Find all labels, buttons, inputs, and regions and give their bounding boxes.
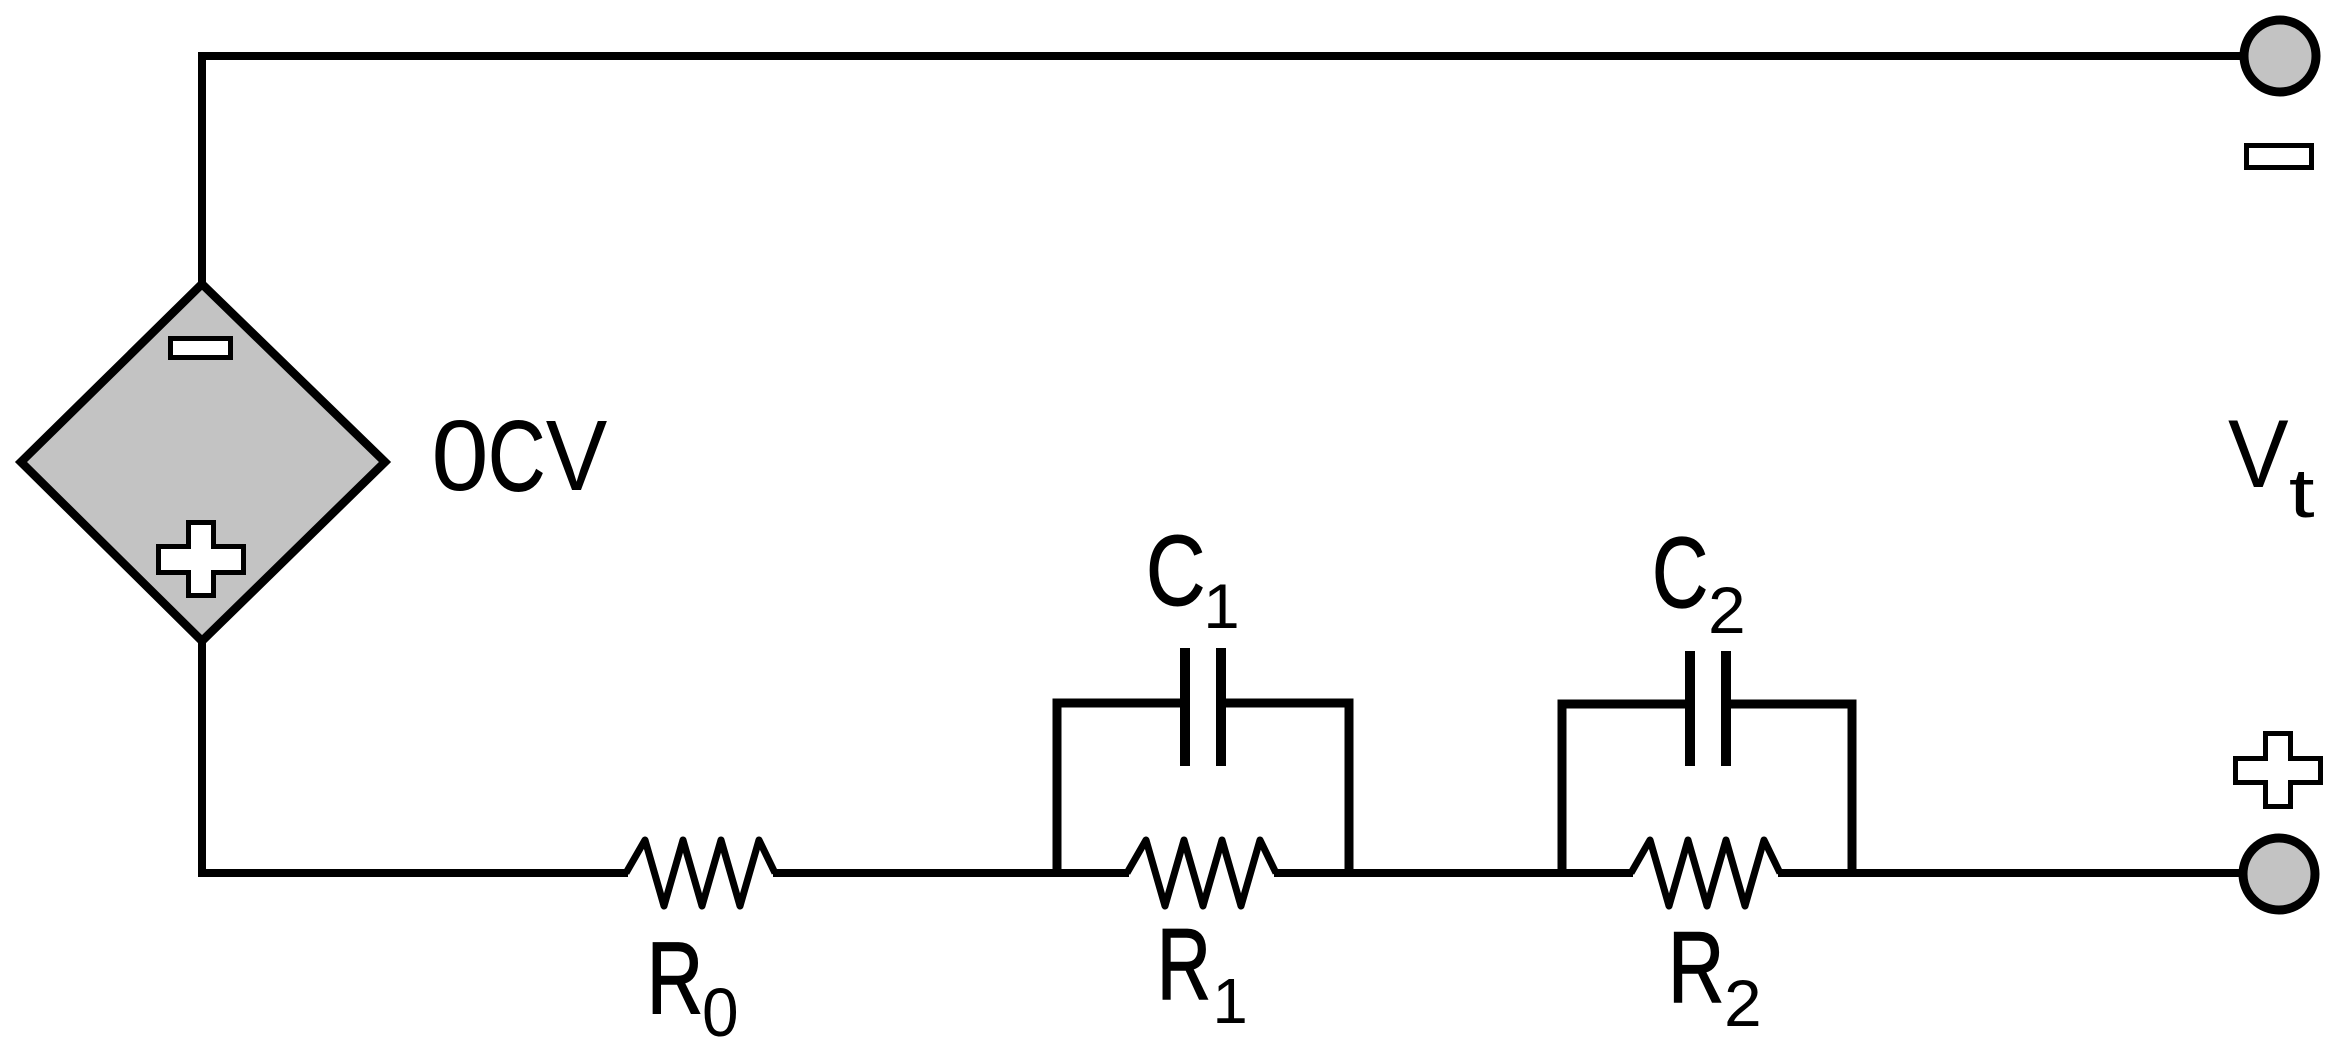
svg-text:R: R <box>1668 911 1724 1024</box>
parallel RC branch 2 bracket <box>1562 704 1852 877</box>
terminal node top right <box>2244 20 2316 92</box>
resistor R2 zigzag <box>1631 840 1780 906</box>
label C1 <box>1146 516 1240 642</box>
svg-text:R: R <box>1157 908 1211 1021</box>
capacitor C2 plates <box>1690 651 1726 766</box>
minus sign at top terminal <box>2247 146 2312 168</box>
plus sign at bottom terminal <box>2236 734 2321 807</box>
svg-text:0: 0 <box>702 975 739 1042</box>
resistor R0 zigzag <box>626 840 775 906</box>
svg-text:t: t <box>2289 454 2315 532</box>
svg-text:2: 2 <box>1708 574 1746 648</box>
svg-text:C: C <box>1146 516 1206 627</box>
svg-text:V: V <box>546 401 608 512</box>
voltage source OCV diamond <box>21 284 385 641</box>
label OCV <box>431 399 607 512</box>
capacitor C1 plates <box>1185 648 1221 766</box>
wire bottom rail segments <box>198 869 2240 877</box>
plus sign inside source <box>159 523 244 596</box>
svg-text:V: V <box>2228 399 2289 507</box>
minus sign inside source <box>171 339 231 358</box>
svg-text:C: C <box>488 401 545 513</box>
svg-text:1: 1 <box>1213 966 1248 1037</box>
svg-text:R: R <box>647 922 703 1035</box>
svg-text:1: 1 <box>1203 571 1239 642</box>
resistor R1 zigzag <box>1127 840 1276 906</box>
label C2 <box>1652 517 1746 648</box>
label R0 <box>647 922 739 1042</box>
label R2 <box>1668 911 1762 1040</box>
svg-text:2: 2 <box>1724 967 1762 1041</box>
svg-text:0: 0 <box>431 399 488 511</box>
wire top loop: top rail and left vertical drop <box>202 56 2243 283</box>
parallel RC branch 1 bracket <box>1057 703 1349 877</box>
label R1 <box>1157 908 1248 1037</box>
svg-text:C: C <box>1652 517 1708 629</box>
label Vt <box>2228 399 2315 532</box>
terminal node bottom right <box>2243 838 2315 910</box>
wire left vertical from source bottom to bottom rail <box>198 641 206 877</box>
